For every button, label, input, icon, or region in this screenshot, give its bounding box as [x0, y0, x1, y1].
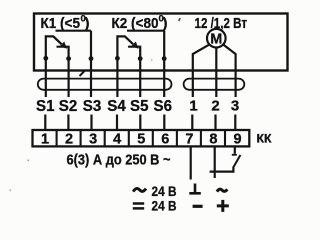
switch K1 blade from S1	[46, 36, 62, 58]
svg-text:1: 1	[189, 98, 197, 115]
wire terminal 8 down	[214, 147, 216, 179]
wire S6	[163, 31, 165, 130]
DC symbol left	[133, 204, 144, 209]
svg-text:2: 2	[211, 98, 219, 115]
svg-text:7: 7	[185, 132, 193, 148]
junction dot S5	[138, 56, 143, 61]
enclosure box	[34, 14, 288, 71]
junction dot S3	[89, 56, 94, 61]
AC symbol left	[133, 188, 146, 191]
external switch wire bend	[210, 167, 234, 172]
wire terminal 7 down	[190, 147, 192, 180]
svg-text:5: 5	[137, 132, 145, 148]
wire S4	[116, 58, 119, 130]
AC symbol right	[217, 189, 227, 191]
svg-text:24 В: 24 В	[152, 184, 177, 199]
svg-text:S4: S4	[107, 98, 126, 115]
switch K2 throw contact to S5	[128, 47, 140, 58]
svg-text:4: 4	[113, 132, 121, 148]
motor wire 3	[223, 45, 235, 130]
minus symbol	[193, 205, 203, 208]
svg-text:S5: S5	[130, 98, 149, 115]
motor wire 2	[214, 48, 217, 131]
junction dot S4	[115, 56, 120, 61]
external switch blade	[233, 155, 240, 167]
terminal block outline	[33, 130, 250, 146]
wire S3	[90, 31, 93, 130]
motor wire 1	[192, 45, 209, 130]
svg-text:S1: S1	[36, 98, 55, 115]
svg-text:8: 8	[209, 132, 217, 148]
svg-text:S6: S6	[154, 98, 173, 115]
stray scan speck	[178, 18, 181, 22]
svg-text:): )	[163, 15, 168, 32]
svg-text:3: 3	[89, 132, 97, 148]
wire S5	[139, 58, 141, 130]
switch K2 fixed contact line to S6	[127, 30, 164, 32]
junction dot S6	[162, 56, 167, 61]
switch K2 blade from S4	[117, 36, 133, 58]
wire stub terminal 9	[234, 147, 236, 154]
cable gland oval right	[184, 79, 245, 90]
svg-text:): )	[85, 15, 90, 32]
switch K1 blade arrowhead	[60, 42, 67, 49]
svg-text:6: 6	[161, 132, 169, 148]
svg-text:2: 2	[65, 132, 73, 148]
svg-text:3: 3	[231, 98, 239, 115]
switch K1 throw contact to S2	[57, 47, 69, 58]
svg-text:1: 1	[41, 132, 49, 148]
svg-text:9: 9	[233, 132, 241, 148]
switch contact tick at terminal 9	[232, 154, 237, 156]
junction dot S1	[43, 56, 48, 61]
switch K2 blade arrowhead	[131, 42, 138, 49]
small tick mark on enclosure bottom	[80, 71, 85, 76]
svg-text:S2: S2	[59, 98, 78, 115]
switch K1 fixed contact line to S3	[56, 30, 92, 32]
svg-text:24 В: 24 В	[152, 199, 177, 214]
svg-text:6(3) А до 250 В ~: 6(3) А до 250 В ~	[67, 152, 171, 169]
neutral symbol	[189, 184, 201, 194]
cable gland oval left	[38, 79, 172, 90]
terminal block dividers	[57, 130, 225, 146]
svg-text:КК: КК	[257, 132, 273, 146]
motor M circle	[207, 29, 226, 48]
plus symbol	[217, 200, 229, 212]
svg-text:М: М	[210, 32, 222, 48]
svg-text:К1 (<5: К1 (<5	[41, 15, 81, 32]
wire S2	[67, 58, 69, 130]
junction dot S2	[66, 56, 71, 61]
svg-text:S3: S3	[83, 98, 102, 115]
wire S1	[44, 58, 47, 130]
scan noise specks	[28, 160, 30, 162]
svg-text:К2 (<80: К2 (<80	[112, 15, 159, 32]
